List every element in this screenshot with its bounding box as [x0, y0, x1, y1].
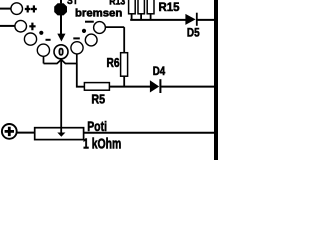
svg-text:Poti: Poti: [87, 118, 107, 134]
svg-text:R15: R15: [159, 0, 180, 14]
svg-text:0: 0: [58, 47, 63, 59]
svg-text:bremsen: bremsen: [75, 8, 122, 20]
svg-text:ST: ST: [67, 0, 78, 7]
svg-text:1 kOhm: 1 kOhm: [83, 136, 121, 152]
svg-text:R5: R5: [91, 92, 105, 107]
svg-text:D5: D5: [187, 25, 200, 39]
svg-text:R6: R6: [107, 55, 120, 70]
svg-text:D4: D4: [153, 66, 166, 78]
svg-text:R13: R13: [109, 0, 125, 8]
